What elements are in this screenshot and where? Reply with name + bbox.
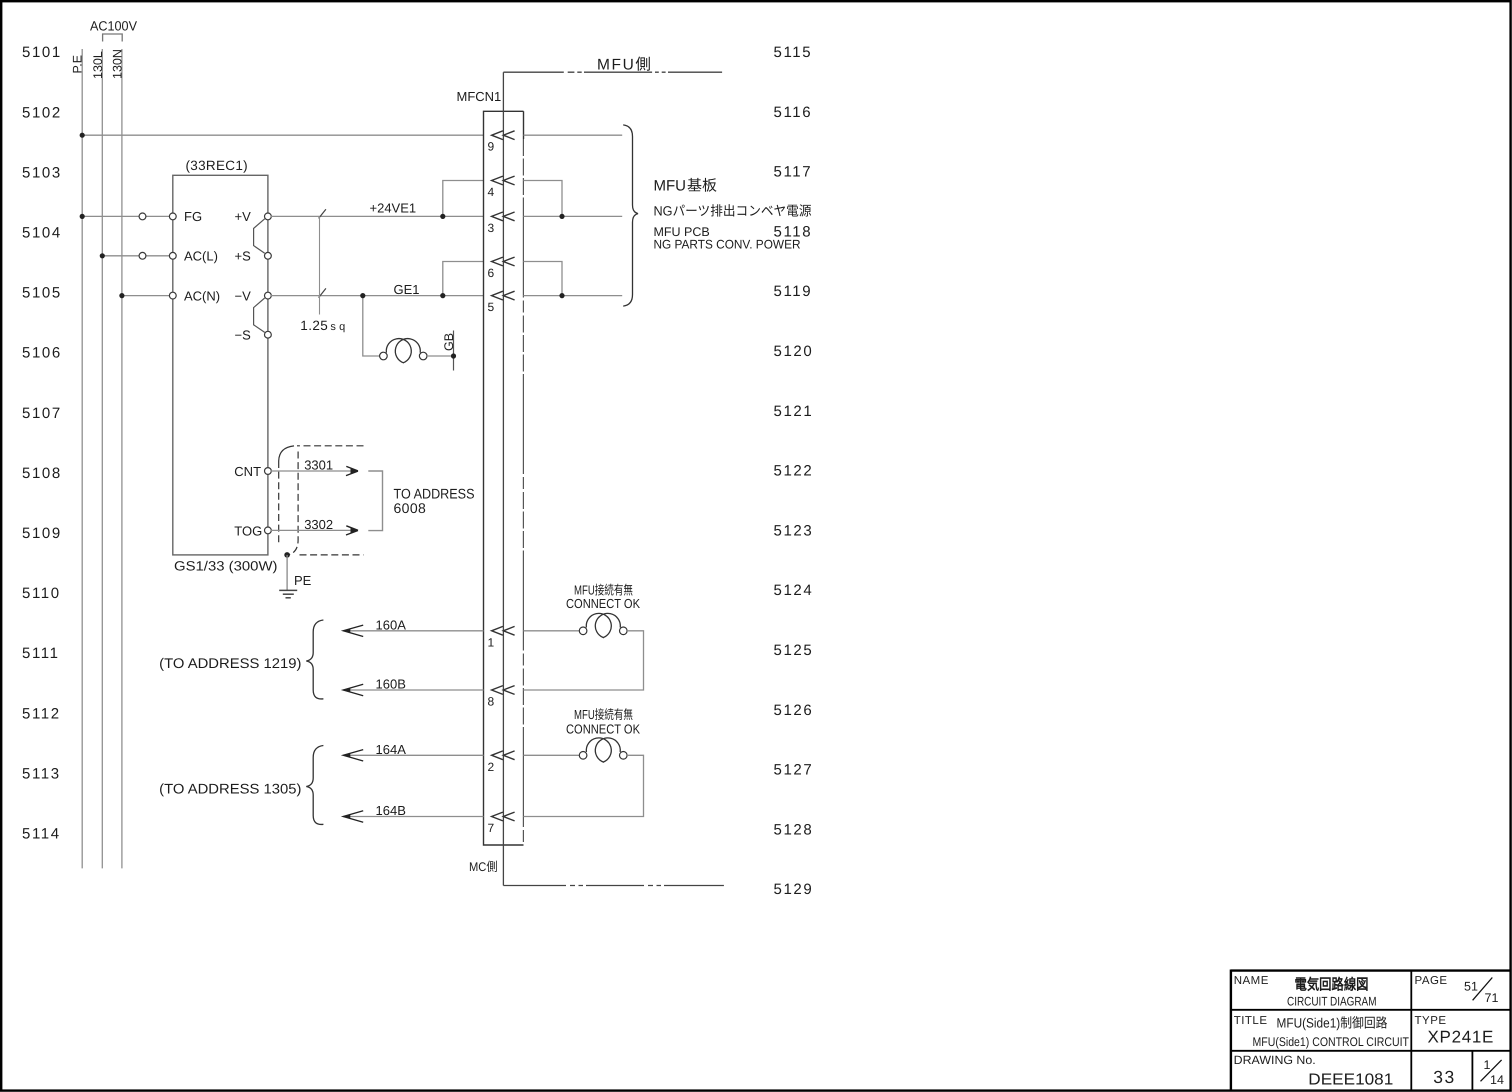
svg-text:5103: 5103: [22, 164, 62, 181]
wire pin4 riser left: [443, 181, 484, 217]
terminal circle -S: [265, 331, 272, 338]
svg-text:8: 8: [488, 695, 495, 709]
pin numbers: [488, 140, 495, 835]
svg-text:MFU基板: MFU基板: [654, 178, 718, 195]
terminal circle AC(N): [169, 292, 176, 299]
wire pin1 to link1: [524, 630, 580, 632]
title block frame: [1231, 970, 1510, 1091]
svg-text:MFU(Side1)制御回路: MFU(Side1)制御回路: [1277, 1015, 1388, 1030]
svg-text:PAGE: PAGE: [1415, 975, 1448, 987]
svg-text:164B: 164B: [376, 803, 406, 818]
wire AC(N) net: [122, 295, 173, 297]
link symbol connect2 right loop: [595, 738, 620, 762]
svg-text:MFCN1: MFCN1: [457, 89, 502, 104]
link symbol connect1 left loop: [586, 613, 611, 637]
terminal circle +V: [265, 213, 272, 220]
link symbol connect1 right loop: [595, 613, 620, 637]
wire +24VE1 net: [271, 215, 484, 217]
svg-text:6008: 6008: [394, 500, 427, 516]
svg-text:14: 14: [1490, 1073, 1504, 1087]
wire pin6 right riser: [524, 262, 563, 296]
svg-text:5121: 5121: [774, 403, 814, 420]
svg-text:GE1: GE1: [394, 282, 420, 297]
svg-text:5115: 5115: [774, 44, 813, 61]
svg-text:CNT: CNT: [234, 464, 261, 479]
wire pin9 net left: [82, 134, 483, 136]
left margin line numbers: [22, 44, 62, 842]
wire 164A left: [343, 754, 483, 756]
shielded cable dashed outline left: [297, 445, 364, 447]
svg-text:1: 1: [488, 635, 495, 649]
brace MFU power: [623, 125, 638, 306]
svg-text:164A: 164A: [376, 742, 407, 757]
svg-text:5107: 5107: [22, 405, 62, 422]
wire link2 to riser: [524, 755, 644, 816]
svg-text:AC(L): AC(L): [184, 249, 218, 264]
shielded cable dashed outline right: [289, 452, 299, 555]
svg-text:PE: PE: [294, 573, 312, 588]
svg-text:NGパーツ排出コンベヤ電源: NGパーツ排出コンベヤ電源: [654, 203, 812, 218]
junction 130L AC(L): [100, 253, 105, 258]
svg-text:CIRCUIT DIAGRAM: CIRCUIT DIAGRAM: [1287, 995, 1377, 1009]
svg-text:CONNECT OK: CONNECT OK: [566, 721, 640, 736]
junction shield PE: [284, 552, 290, 558]
wire PE drop: [286, 555, 288, 590]
boundary MFU side vertical: [502, 72, 504, 885]
svg-text:51: 51: [1464, 980, 1478, 994]
svg-text:5125: 5125: [774, 642, 814, 659]
wire 130N rail: [121, 49, 123, 868]
junction GB: [451, 353, 456, 358]
svg-text:3301: 3301: [304, 457, 333, 472]
terminal circle FG: [169, 213, 176, 220]
svg-text:4: 4: [488, 185, 495, 199]
svg-text:FG: FG: [184, 209, 202, 224]
arrow 160A: [343, 625, 363, 636]
svg-text:130L: 130L: [91, 51, 105, 79]
boundary MFU side top line: [503, 71, 722, 73]
pin 9 chevrons: [492, 131, 515, 821]
wire pin2 to link2: [524, 754, 580, 756]
svg-text:5122: 5122: [774, 463, 814, 480]
svg-text:(TO ADDRESS 1305): (TO ADDRESS 1305): [159, 781, 301, 797]
svg-text:XP241E: XP241E: [1428, 1028, 1495, 1047]
svg-text:5106: 5106: [22, 345, 62, 362]
arrow 164A: [343, 750, 363, 761]
terminal circle +S: [265, 252, 272, 259]
svg-text:5113: 5113: [22, 765, 61, 782]
connector MFCN1 right edge chain line: [522, 139, 524, 845]
wire GE1 net: [271, 295, 484, 297]
wire AC(L) net: [102, 255, 173, 257]
arrow 3302: [346, 526, 358, 535]
svg-text:5108: 5108: [22, 465, 62, 482]
svg-text:6: 6: [488, 266, 495, 280]
svg-text:5114: 5114: [22, 826, 61, 843]
terminal circle -V: [265, 292, 272, 299]
svg-text:5109: 5109: [22, 525, 62, 542]
svg-text:−V: −V: [235, 288, 252, 303]
wire pin6 riser left: [443, 262, 484, 296]
svg-text:P.E: P.E: [71, 55, 85, 74]
wire pin4 right riser: [524, 181, 563, 217]
wire P.E rail: [81, 49, 83, 868]
junction GE1 riser: [440, 293, 445, 298]
brace 1219: [306, 620, 323, 699]
svg-text:9: 9: [488, 140, 495, 154]
link symbol connect2 left loop: [586, 738, 611, 762]
terminal circle FG mid: [139, 213, 146, 220]
jumper +V +S: [254, 219, 265, 253]
svg-text:5117: 5117: [774, 164, 813, 181]
junction GE1 drop: [360, 293, 365, 298]
svg-text:5123: 5123: [774, 522, 814, 539]
link symbol GB terminal left: [380, 352, 388, 360]
link symbol GB left loop: [386, 339, 411, 363]
svg-text:TOG: TOG: [234, 523, 262, 538]
terminal circle AC(L): [169, 252, 176, 259]
wire pin9 right: [524, 134, 623, 136]
junction P.E FG: [80, 214, 85, 219]
arrow 3301: [346, 466, 358, 475]
svg-text:5112: 5112: [22, 705, 61, 722]
svg-text:DEEE1081: DEEE1081: [1308, 1072, 1393, 1089]
svg-text:5110: 5110: [22, 585, 61, 602]
link symbol connect1 terminal right: [620, 627, 628, 635]
svg-text:1: 1: [1484, 1058, 1491, 1072]
link symbol connect2 terminal left: [579, 752, 587, 760]
wire pin5 right: [524, 295, 623, 297]
svg-text:NAME: NAME: [1234, 975, 1269, 987]
junction P.E pin9: [80, 133, 85, 138]
svg-text:AC(N): AC(N): [184, 288, 220, 303]
wire link1 to riser: [524, 631, 644, 690]
svg-text:5124: 5124: [774, 582, 814, 599]
svg-text:160B: 160B: [376, 677, 406, 692]
svg-text:5: 5: [488, 300, 495, 314]
svg-text:MFU側: MFU側: [597, 56, 652, 73]
svg-text:5116: 5116: [774, 104, 813, 121]
svg-text:3: 3: [488, 221, 495, 235]
junction pin3 riser: [559, 214, 564, 219]
svg-text:NG PARTS CONV. POWER: NG PARTS CONV. POWER: [654, 237, 801, 251]
svg-text:5102: 5102: [22, 104, 62, 121]
terminal circle AC(L) mid: [139, 252, 146, 259]
svg-text:5104: 5104: [22, 225, 62, 242]
ground PE: [279, 590, 297, 597]
wire 130L rail: [101, 49, 103, 868]
svg-text:MFU(Side1) CONTROL CIRCUIT: MFU(Side1) CONTROL CIRCUIT: [1253, 1035, 1410, 1049]
link symbol GB right loop: [395, 339, 420, 363]
svg-text:71: 71: [1485, 991, 1499, 1005]
wire FG net: [82, 215, 173, 217]
svg-text:(TO ADDRESS 1219): (TO ADDRESS 1219): [159, 655, 301, 671]
svg-text:電気回路線図: 電気回路線図: [1295, 976, 1369, 994]
bracket to address 6008: [368, 471, 382, 531]
svg-text:MC側: MC側: [469, 860, 498, 874]
svg-text:TYPE: TYPE: [1415, 1015, 1447, 1027]
svg-text:(33REC1): (33REC1): [186, 158, 248, 173]
svg-text:5128: 5128: [774, 821, 814, 838]
wire 160B left: [343, 689, 483, 691]
svg-text:TO ADDRESS: TO ADDRESS: [394, 486, 475, 502]
shielded cable solid cap: [279, 446, 294, 461]
junction +24VE1 riser: [440, 214, 445, 219]
junction pin5 riser: [559, 293, 564, 298]
svg-text:1.25sq: 1.25sq: [300, 318, 345, 333]
boundary MC side bottom line: [503, 885, 724, 887]
terminal circle CNT: [265, 468, 272, 475]
wire GE1 drop to GB: [363, 296, 380, 356]
svg-text:AC100V: AC100V: [90, 19, 137, 34]
wire size tick 1: [319, 209, 326, 218]
link symbol connect1 terminal left: [579, 627, 587, 635]
terminal circle TOG: [265, 527, 272, 534]
link symbol GB terminal right: [419, 352, 427, 360]
svg-text:5101: 5101: [22, 44, 62, 61]
wire TOG 3302: [271, 529, 355, 531]
svg-text:160A: 160A: [376, 618, 407, 633]
svg-text:+24VE1: +24VE1: [370, 201, 417, 216]
right margin line numbers: [774, 44, 814, 898]
junction 130N AC(N): [119, 293, 124, 298]
svg-text:7: 7: [488, 821, 495, 835]
brace 1305: [306, 746, 323, 825]
svg-text:5127: 5127: [774, 762, 814, 779]
svg-text:5119: 5119: [774, 283, 813, 300]
svg-text:5111: 5111: [22, 645, 60, 662]
power supply 33REC1 box: [173, 175, 268, 555]
svg-text:GS1/33 (300W): GS1/33 (300W): [174, 559, 278, 574]
svg-text:+S: +S: [235, 249, 252, 264]
arrow 160B: [343, 684, 363, 695]
svg-text:3302: 3302: [304, 517, 333, 532]
wire size tick 2: [319, 288, 326, 297]
svg-text:5120: 5120: [774, 343, 814, 360]
wire 160A left: [343, 630, 483, 632]
svg-text:+V: +V: [235, 209, 252, 224]
svg-text:5126: 5126: [774, 702, 814, 719]
link symbol connect2 terminal right: [620, 752, 628, 760]
svg-text:MFU接続有無: MFU接続有無: [574, 707, 633, 722]
svg-text:2: 2: [488, 760, 495, 774]
jumper -V -S: [254, 298, 265, 332]
connector MFCN1 box: [484, 111, 524, 845]
AC100V bracket cap: [103, 34, 123, 42]
svg-text:130N: 130N: [110, 49, 124, 79]
svg-text:33: 33: [1433, 1067, 1455, 1087]
shielded cable dashed tail bottom: [300, 554, 364, 556]
svg-text:GB: GB: [442, 333, 456, 351]
svg-text:CONNECT OK: CONNECT OK: [566, 596, 640, 611]
wire pin3 right: [524, 215, 623, 217]
wire CNT 3301: [271, 470, 355, 472]
wire 164B left: [343, 816, 483, 818]
node GB bus stub: [453, 331, 455, 371]
wire size leader: [319, 216, 321, 314]
svg-text:−S: −S: [235, 327, 252, 342]
svg-text:DRAWING No.: DRAWING No.: [1234, 1053, 1316, 1067]
wire GB to bus: [427, 355, 454, 357]
svg-text:5105: 5105: [22, 285, 62, 302]
svg-text:TITLE: TITLE: [1234, 1015, 1268, 1027]
arrow 164B: [343, 811, 363, 822]
svg-text:5129: 5129: [774, 881, 814, 898]
